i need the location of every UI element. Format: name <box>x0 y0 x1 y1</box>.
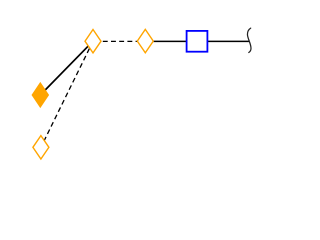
wire: solid diagonal bond hub-diamond to filled-diamond <box>40 41 93 95</box>
node: filled orange diamond monosaccharide <box>32 83 48 107</box>
wire: solid bond blue-square to reducing-end squiggle <box>197 40 250 42</box>
node: blue square monosaccharide <box>187 31 208 52</box>
wire: dashed bond hub-diamond to middle-diamond <box>93 40 145 42</box>
node: bottom diamond (white/orange outline monosaccharide) <box>33 136 49 159</box>
wire: dashed diagonal bond hub-diamond to bottom-diamond <box>41 41 93 147</box>
reducing-end squiggle (integral-shaped curl) <box>247 28 251 52</box>
node: hub diamond (white/orange outline monosaccharide) <box>85 30 101 53</box>
node: middle diamond (white/orange outline monosaccharide) <box>137 29 153 52</box>
wire: solid bond middle-diamond to blue-square <box>145 40 197 42</box>
